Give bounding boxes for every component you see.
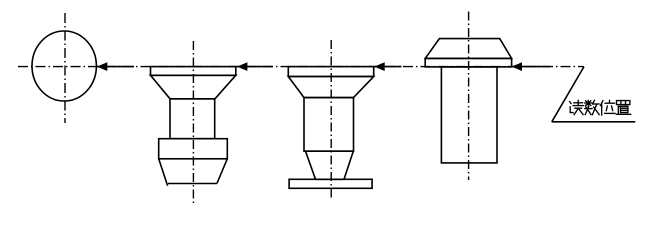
glyph 置	[616, 101, 630, 115]
tip 2: flat-flange probe outline	[151, 67, 236, 186]
horizontal centerline (reading position line)	[18, 66, 584, 68]
tip 4 cap	[425, 39, 511, 59]
glyph 读	[570, 100, 584, 114]
tip 2 bottom cone left slant with overshoot	[159, 159, 168, 186]
glyph 位	[600, 100, 615, 115]
tip 3 vertical centerline	[330, 40, 332, 198]
tip 3 shaft	[304, 98, 354, 152]
arrow 1 shaft	[97, 66, 134, 68]
tip 4 body	[441, 67, 497, 163]
arrow 4 shaft	[512, 66, 550, 68]
tip 2 bottom cone right slant	[217, 159, 227, 184]
tip 4: wide-cap probe outline	[425, 39, 511, 163]
tip 3 flange	[288, 67, 373, 77]
tip 2 funnel	[151, 75, 236, 99]
tip 4 vertical centerline	[468, 12, 470, 181]
tip 2 shaft	[170, 99, 215, 139]
circle vertical centerline	[64, 13, 66, 123]
tip 2 vertical centerline	[192, 41, 194, 203]
arrow 3 shaft	[374, 66, 401, 68]
tip 3 funnel	[288, 77, 373, 98]
label text 读数位置 (reading position), drawn as strokes	[570, 100, 631, 115]
leader underline	[552, 121, 636, 123]
circle view A (dial face)	[32, 31, 96, 101]
leader slant line	[552, 67, 584, 122]
tip 3 base plate	[289, 179, 372, 188]
tip 2 flange	[151, 67, 236, 76]
tip 3: flanged-base probe outline	[288, 67, 373, 189]
arrow 1 head	[97, 62, 108, 71]
arrow 2 shaft	[237, 66, 273, 68]
arrow 4 head	[512, 62, 522, 71]
tip 3 lower taper	[306, 151, 354, 179]
arrow 3 head	[374, 62, 385, 71]
tip 2 head	[159, 139, 228, 159]
arrow 2 head	[237, 62, 247, 71]
glyph 数	[585, 100, 599, 114]
tip 2 bottom cone bottom edge	[168, 183, 217, 185]
tip 4 flange	[425, 58, 511, 67]
